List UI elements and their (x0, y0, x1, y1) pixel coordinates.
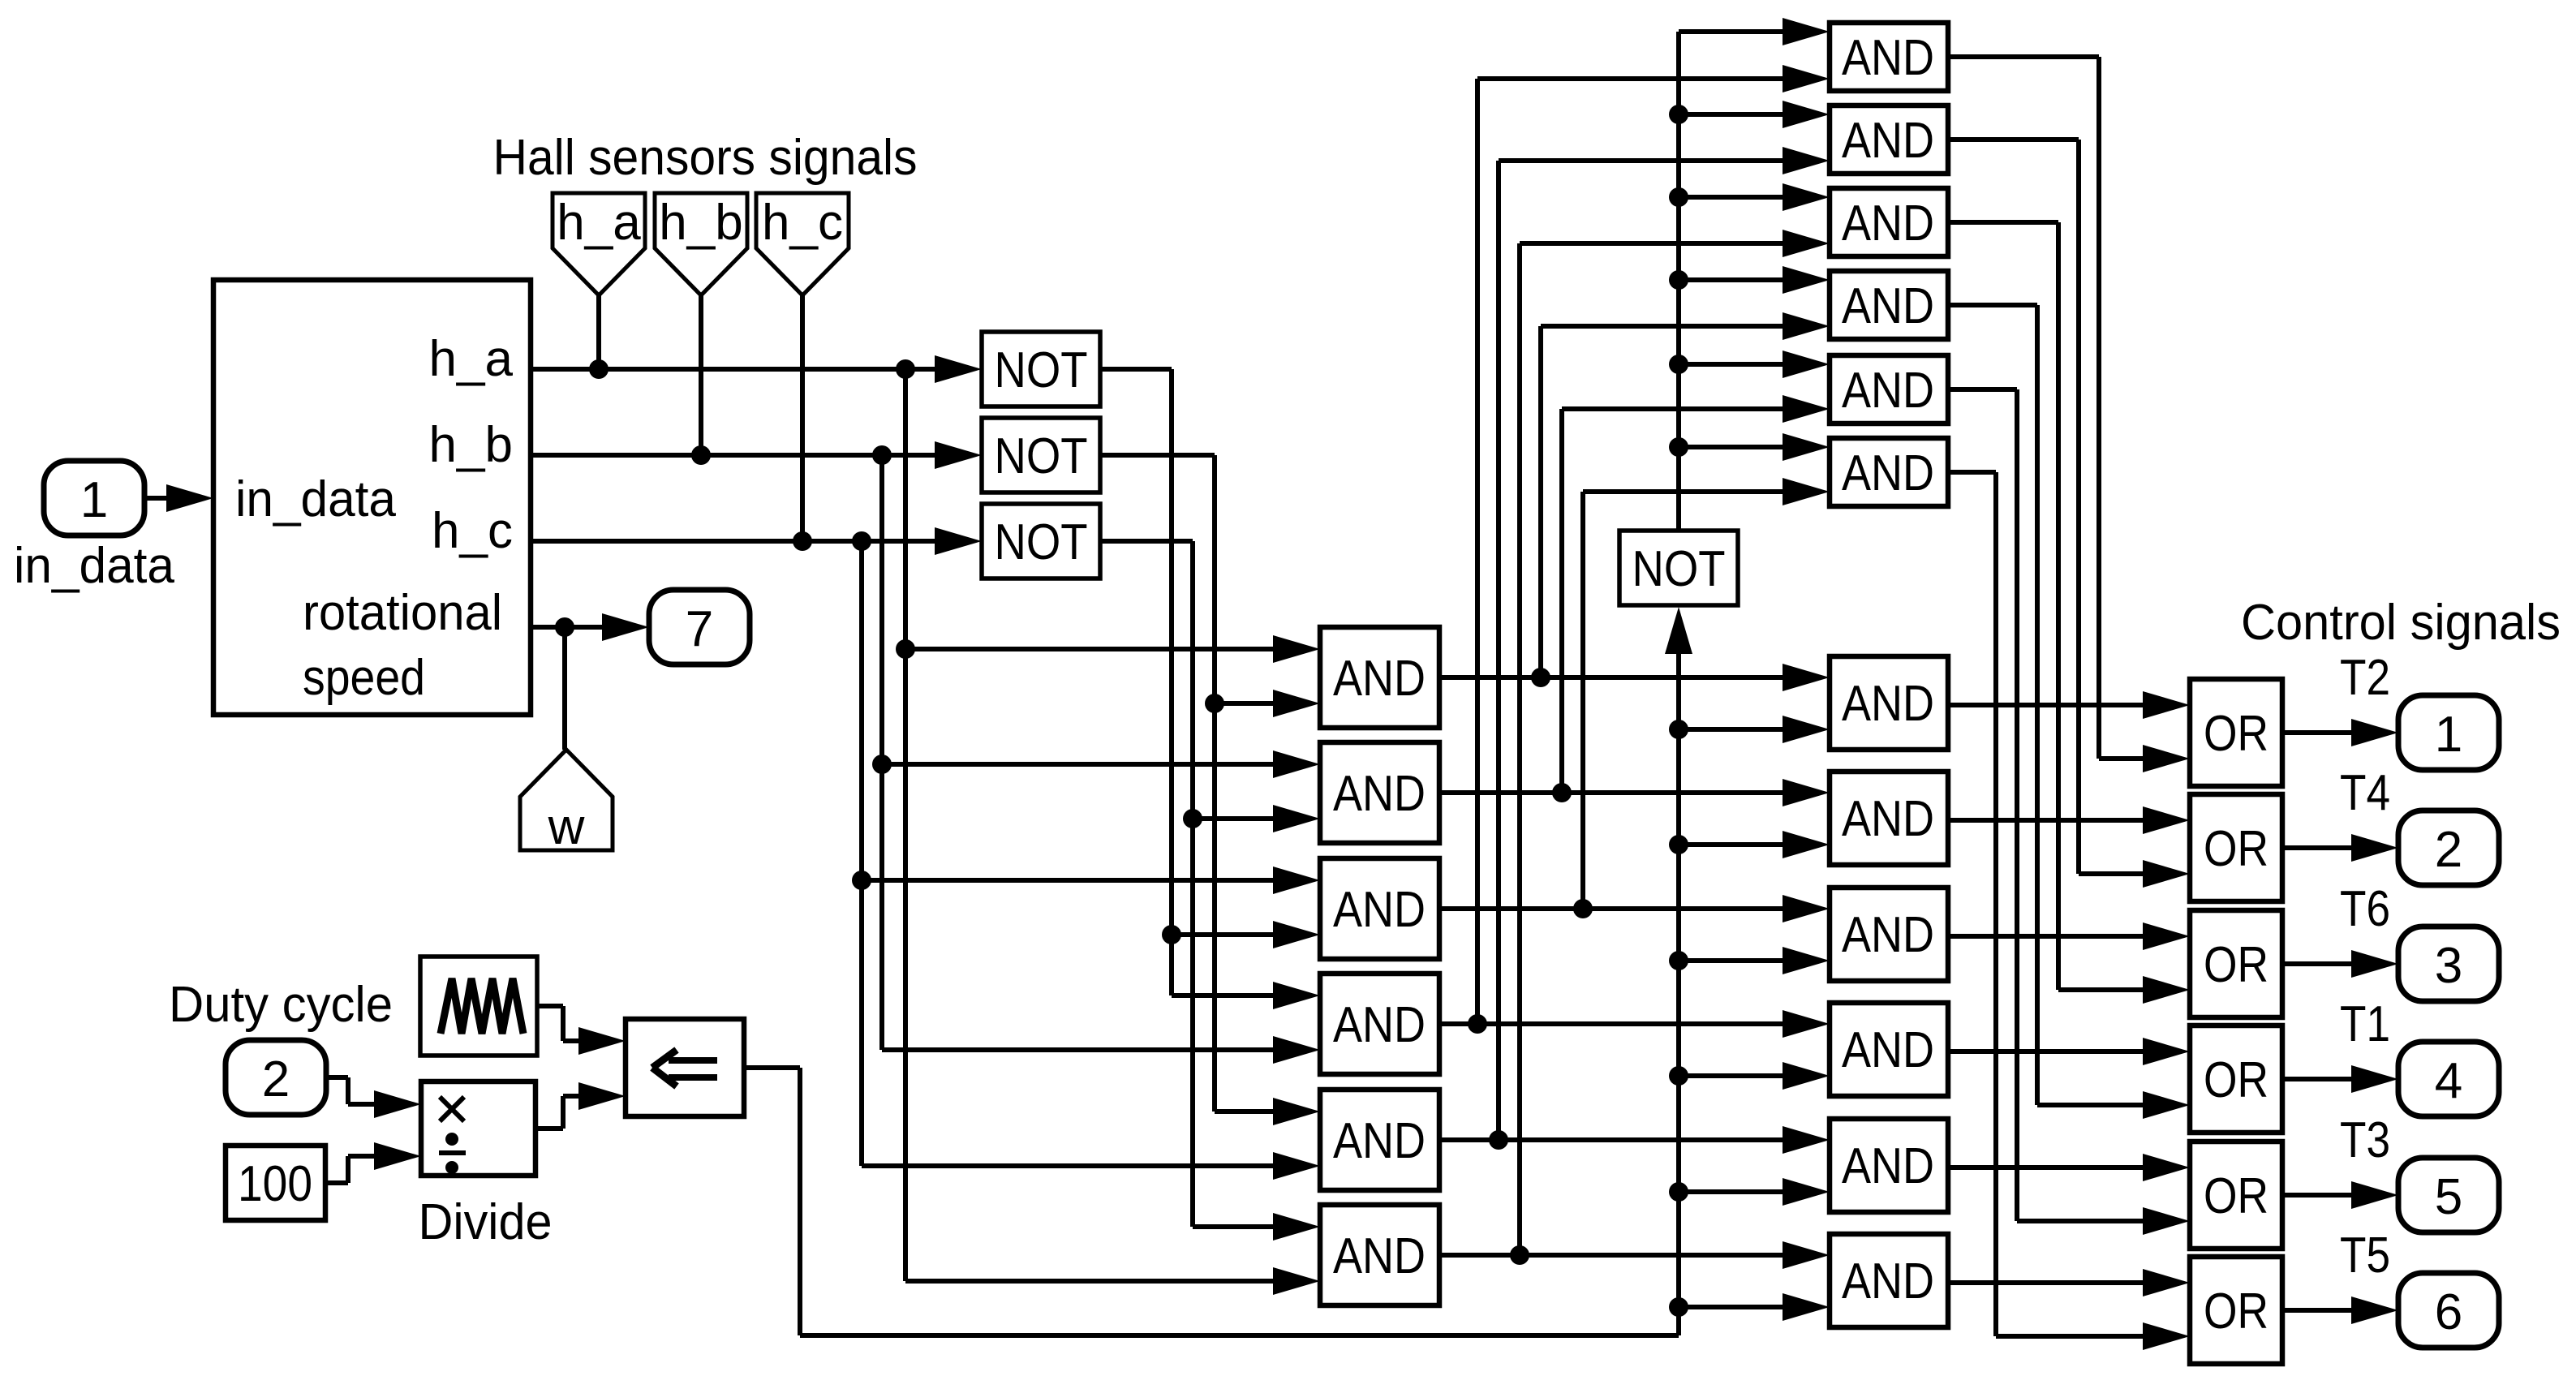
AND gate R4 (1830, 1003, 1948, 1096)
wire NOT3 to AND L2 in2 (1193, 805, 1320, 832)
svg-text:Hall sensors signals: Hall sensors signals (493, 130, 918, 186)
svg-text:AND: AND (1842, 1253, 1934, 1309)
svg-text:5: 5 (2435, 1169, 2462, 1225)
wire PWM to AND R6 in2 (1679, 1293, 1830, 1321)
wire AND L1 output to AND R1 (1439, 664, 1830, 691)
wire riser AND L1 to top AND (1541, 312, 1830, 677)
subsystem port label in_data (235, 471, 396, 527)
wire NOT U4 to top AND 3 in1 (1679, 183, 1830, 211)
svg-text:Duty cycle: Duty cycle (169, 977, 393, 1033)
svg-text:T1: T1 (2340, 996, 2390, 1052)
wire h_a tag stem (596, 295, 601, 369)
label T5 (2340, 1228, 2390, 1284)
svg-text:AND: AND (1842, 30, 1934, 86)
junction h_a tag (589, 359, 609, 379)
wire h_b tag stem (699, 295, 703, 455)
wire h_c (531, 527, 982, 555)
junction AND L4 riser (1468, 1014, 1487, 1034)
wire riser AND L3 to top AND (1583, 478, 1830, 909)
svg-text:T6: T6 (2340, 881, 2390, 937)
junction AND L6 riser (1510, 1245, 1529, 1265)
svg-text:h_c: h_c (432, 503, 513, 559)
svg-text:NOT: NOT (995, 342, 1088, 398)
wire OR3 to outport 3 (2282, 950, 2398, 978)
svg-text:in_data: in_data (14, 538, 174, 594)
svg-text:1: 1 (80, 472, 108, 528)
label T6 (2340, 881, 2390, 937)
wire AND R1 output to OR1 (1947, 691, 2190, 719)
wire PWM to AND R3 in2 (1679, 947, 1830, 974)
product block Divide (multiply-divide) (421, 1081, 535, 1176)
junction PWM to AND R3 (1669, 951, 1688, 970)
outport 4 (2398, 1042, 2499, 1116)
svg-text:w: w (548, 799, 585, 855)
svg-text:OR: OR (2204, 937, 2269, 993)
wire AND T2 output to OR2 (1947, 140, 2190, 888)
junction h_b branch (872, 445, 892, 465)
wire NOT2 to AND L1 in2 (1215, 690, 1320, 717)
wire AND L3 output to AND R3 (1439, 895, 1830, 922)
svg-text:AND: AND (1842, 907, 1934, 963)
NOT gate U4 (not PWM) (1619, 531, 1738, 605)
inport 2 (duty cycle) (226, 1040, 326, 1115)
junction NOT2 to AND L1 (1205, 694, 1224, 713)
AND gate T4 (1830, 271, 1948, 339)
wire PWM to AND R4 in2 (1679, 1062, 1830, 1090)
wire NOT1 to AND L3 in2 (1172, 921, 1320, 948)
svg-text:NOT: NOT (1632, 541, 1726, 597)
AND gate T1 (1830, 23, 1948, 91)
wire riser AND L4 to top AND (1477, 65, 1830, 1024)
OR gate 5 (2190, 1142, 2282, 1249)
wire AND T6 output to OR6 (1947, 472, 2190, 1350)
junction PWM to AND R6 (1669, 1297, 1688, 1317)
wire OR2 to outport 2 (2282, 834, 2398, 862)
svg-text:7: 7 (686, 601, 713, 657)
junction rotational speed (555, 617, 574, 637)
junction h_c to AND L3 (852, 871, 871, 890)
subsystem in_data (commutation table) (213, 280, 531, 715)
wire comparator output to PWM vertical (744, 1068, 1679, 1335)
wire AND L6 output to AND R6 (1439, 1241, 1830, 1269)
svg-text:T3: T3 (2340, 1112, 2390, 1168)
annotation: Duty cycle (169, 977, 393, 1033)
junction h_c branch (852, 531, 871, 551)
svg-text:OR: OR (2204, 1284, 2269, 1339)
inport label in_data (14, 538, 174, 594)
outport 7 (649, 590, 750, 664)
svg-text:in_data: in_data (235, 471, 396, 527)
junction NOT U4 to top AND 5 (1669, 355, 1688, 374)
junction h_c tag (793, 531, 812, 551)
NOT gate U3 (not h_c) (982, 504, 1100, 578)
outport 3 (2398, 927, 2499, 1001)
AND gate L2 (1320, 742, 1439, 843)
svg-text:AND: AND (1842, 445, 1934, 501)
wire AND R6 output to OR6 (1947, 1269, 2190, 1296)
wire h_b (531, 441, 982, 469)
label T3 (2340, 1112, 2390, 1168)
OR gate 4 (2190, 1026, 2282, 1133)
junction h_b tag (691, 445, 711, 465)
wire inport1 to subsystem (144, 484, 213, 512)
goto tag h_a (553, 193, 645, 295)
goto tag w (520, 750, 613, 855)
annotation: Divide label (419, 1194, 553, 1250)
junction h_a to AND L1 (896, 639, 915, 659)
label T1 (2340, 996, 2390, 1052)
label T2 (2340, 650, 2390, 706)
wire AND T5 output to OR5 (1947, 389, 2190, 1235)
junction AND L1 riser (1531, 668, 1550, 687)
outport 1 (2398, 695, 2499, 770)
junction NOT U4 to top AND 6 (1669, 437, 1688, 457)
svg-text:OR: OR (2204, 821, 2269, 877)
outport 5 (2398, 1158, 2499, 1232)
junction PWM to AND R4 (1669, 1066, 1688, 1086)
wire NOT3 output (1100, 541, 1320, 1241)
wire h_c tag stem (800, 295, 805, 541)
svg-text:AND: AND (1842, 791, 1934, 847)
wire riser AND L5 to top AND (1499, 147, 1830, 1140)
wire AND L5 output to AND R5 (1439, 1126, 1830, 1154)
wire AND L4 output to AND R4 (1439, 1010, 1830, 1038)
AND gate T6 (1830, 438, 1948, 506)
svg-text:AND: AND (1842, 113, 1934, 169)
junction NOT1 to AND L3 (1162, 925, 1181, 944)
svg-text:speed: speed (303, 650, 425, 706)
subsystem port label h_b (429, 417, 513, 473)
svg-text:3: 3 (2435, 938, 2462, 994)
subsystem port label speed (303, 650, 425, 706)
svg-text:6: 6 (2435, 1284, 2462, 1340)
outport 6 (2398, 1273, 2499, 1348)
svg-text:T4: T4 (2340, 765, 2390, 821)
svg-text:AND: AND (1333, 882, 1426, 938)
junction NOT U4 to top AND 2 (1669, 105, 1688, 124)
wire NOT U4 to top AND 6 in1 (1679, 433, 1830, 461)
AND gate L6 (1320, 1205, 1439, 1305)
svg-text:rotational: rotational (303, 585, 502, 641)
svg-text:2: 2 (262, 1051, 290, 1107)
wire NOT2 output (1100, 455, 1320, 1125)
wire AND T1 output to OR1 (1947, 57, 2190, 772)
junction NOT U4 to top AND 3 (1669, 187, 1688, 207)
AND gate L3 (1320, 858, 1439, 959)
outport 2 (2398, 811, 2499, 885)
wire h_c vertical branch (862, 541, 1320, 1180)
junction PWM to AND R2 (1669, 835, 1688, 854)
label T4 (2340, 765, 2390, 821)
wire AND R3 output to OR3 (1947, 922, 2190, 950)
svg-text:2: 2 (2435, 822, 2462, 878)
svg-text:OR: OR (2204, 1052, 2269, 1108)
svg-text:100: 100 (238, 1156, 312, 1212)
wire NOT U4 to top AND 4 in1 (1679, 266, 1830, 294)
svg-text:h_a: h_a (557, 195, 641, 251)
svg-text:NOT: NOT (995, 514, 1088, 570)
svg-text:Divide: Divide (419, 1194, 553, 1250)
junction NOT3 to AND L2 (1183, 809, 1202, 828)
OR gate 2 (2190, 794, 2282, 901)
svg-text:T5: T5 (2340, 1228, 2390, 1284)
wire sawtooth to comparator (537, 1006, 626, 1055)
AND gate L5 (1320, 1090, 1439, 1190)
wire PWM to AND R5 in2 (1679, 1178, 1830, 1206)
wire inport2 to product (326, 1077, 421, 1118)
svg-text:AND: AND (1333, 1228, 1426, 1284)
svg-text:T2: T2 (2340, 650, 2390, 706)
wire rotational speed output (531, 613, 649, 641)
AND gate L1 (1320, 627, 1439, 728)
wire AND T4 output to OR4 (1947, 305, 2190, 1119)
svg-text:h_b: h_b (429, 417, 513, 473)
wire riser AND L2 to top AND (1562, 395, 1830, 793)
wire OR4 to outport 4 (2282, 1065, 2398, 1093)
wire h_b to AND L2 in1 (882, 750, 1320, 778)
wire OR1 to outport 1 (2282, 719, 2398, 746)
wire PWM to AND R2 in2 (1679, 831, 1830, 858)
wire NOT1 output (1100, 369, 1320, 1009)
junction AND L2 riser (1552, 783, 1572, 802)
AND gate R2 (1830, 772, 1948, 865)
wire NOT U4 to top AND 2 in1 (1679, 101, 1830, 128)
subsystem port label h_c (432, 503, 513, 559)
svg-text:h_c: h_c (762, 195, 843, 251)
wire AND R4 output to OR4 (1947, 1038, 2190, 1065)
junction AND L5 riser (1489, 1130, 1508, 1150)
AND gate T2 (1830, 105, 1948, 174)
wire AND R2 output to OR2 (1947, 806, 2190, 834)
svg-text:AND: AND (1333, 766, 1426, 822)
repeating sequence (sawtooth carrier) (420, 957, 537, 1056)
inport 1 (44, 461, 144, 535)
wire h_a vertical branch (905, 369, 1320, 1295)
svg-text:1: 1 (2435, 707, 2462, 763)
goto tag h_b (655, 193, 747, 295)
svg-text:AND: AND (1333, 1113, 1426, 1169)
OR gate 1 (2190, 679, 2282, 786)
svg-text:4: 4 (2435, 1053, 2462, 1109)
svg-text:AND: AND (1842, 676, 1934, 732)
wire riser AND L6 to top AND (1520, 230, 1830, 1255)
svg-text:NOT: NOT (995, 428, 1088, 484)
AND gate L4 (1320, 974, 1439, 1074)
wire h_c to AND L3 in1 (862, 866, 1320, 894)
svg-text:AND: AND (1842, 196, 1934, 252)
wire OR6 to outport 6 (2282, 1296, 2398, 1324)
wire h_a (531, 355, 982, 383)
NOT gate U2 (not h_b) (982, 418, 1100, 492)
wire AND T3 output to OR3 (1947, 222, 2190, 1004)
AND gate R1 (1830, 656, 1948, 750)
junction NOT U4 to top AND 4 (1669, 270, 1688, 290)
wire OR5 to outport 5 (2282, 1181, 2398, 1209)
annotation: Control signals (2241, 595, 2561, 651)
AND gate T3 (1830, 188, 1948, 256)
wire PWM vertical to NOT U4 (1665, 607, 1692, 1335)
junction PWM to AND R5 (1669, 1182, 1688, 1202)
AND gate R3 (1830, 888, 1948, 981)
svg-text:AND: AND (1842, 1022, 1934, 1078)
subsystem port label h_a (429, 331, 514, 387)
junction PWM to AND R1 (1669, 720, 1688, 739)
goto tag h_c (756, 193, 849, 295)
relational operator <= (PWM comparator) (626, 1019, 744, 1116)
constant 100 (226, 1146, 325, 1220)
wire constant to product (325, 1142, 421, 1183)
svg-text:AND: AND (1333, 651, 1426, 707)
svg-text:AND: AND (1842, 1138, 1934, 1194)
wire NOT U4 output vertical (1679, 18, 1830, 531)
wire h_b vertical branch (882, 455, 1320, 1064)
OR gate 6 (2190, 1257, 2282, 1364)
AND gate R6 (1830, 1234, 1948, 1327)
svg-text:AND: AND (1333, 997, 1426, 1053)
svg-text:OR: OR (2204, 706, 2269, 762)
junction h_a branch (896, 359, 915, 379)
svg-text:Control signals: Control signals (2241, 595, 2561, 651)
wire w tag stem (562, 627, 567, 750)
svg-text:OR: OR (2204, 1168, 2269, 1224)
wire product to comparator (535, 1082, 626, 1129)
OR gate 3 (2190, 910, 2282, 1017)
NOT gate U1 (not h_a) (982, 332, 1100, 406)
junction h_b to AND L2 (872, 755, 892, 774)
AND gate R5 (1830, 1119, 1948, 1212)
wire NOT U4 to top AND 5 in1 (1679, 350, 1830, 378)
junction AND L3 riser (1573, 899, 1593, 918)
subsystem port label rotational (303, 585, 502, 641)
svg-text:h_b: h_b (659, 195, 742, 251)
AND gate T5 (1830, 355, 1948, 424)
annotation: Hall sensors signals (493, 130, 918, 186)
wire PWM to AND R1 in2 (1679, 716, 1830, 743)
wire AND L2 output to AND R2 (1439, 779, 1830, 806)
wire h_a to AND L1 in1 (905, 635, 1320, 663)
wire AND R5 output to OR5 (1947, 1154, 2190, 1181)
svg-text:h_a: h_a (429, 331, 514, 387)
svg-text:AND: AND (1842, 363, 1934, 419)
svg-text:AND: AND (1842, 278, 1934, 334)
